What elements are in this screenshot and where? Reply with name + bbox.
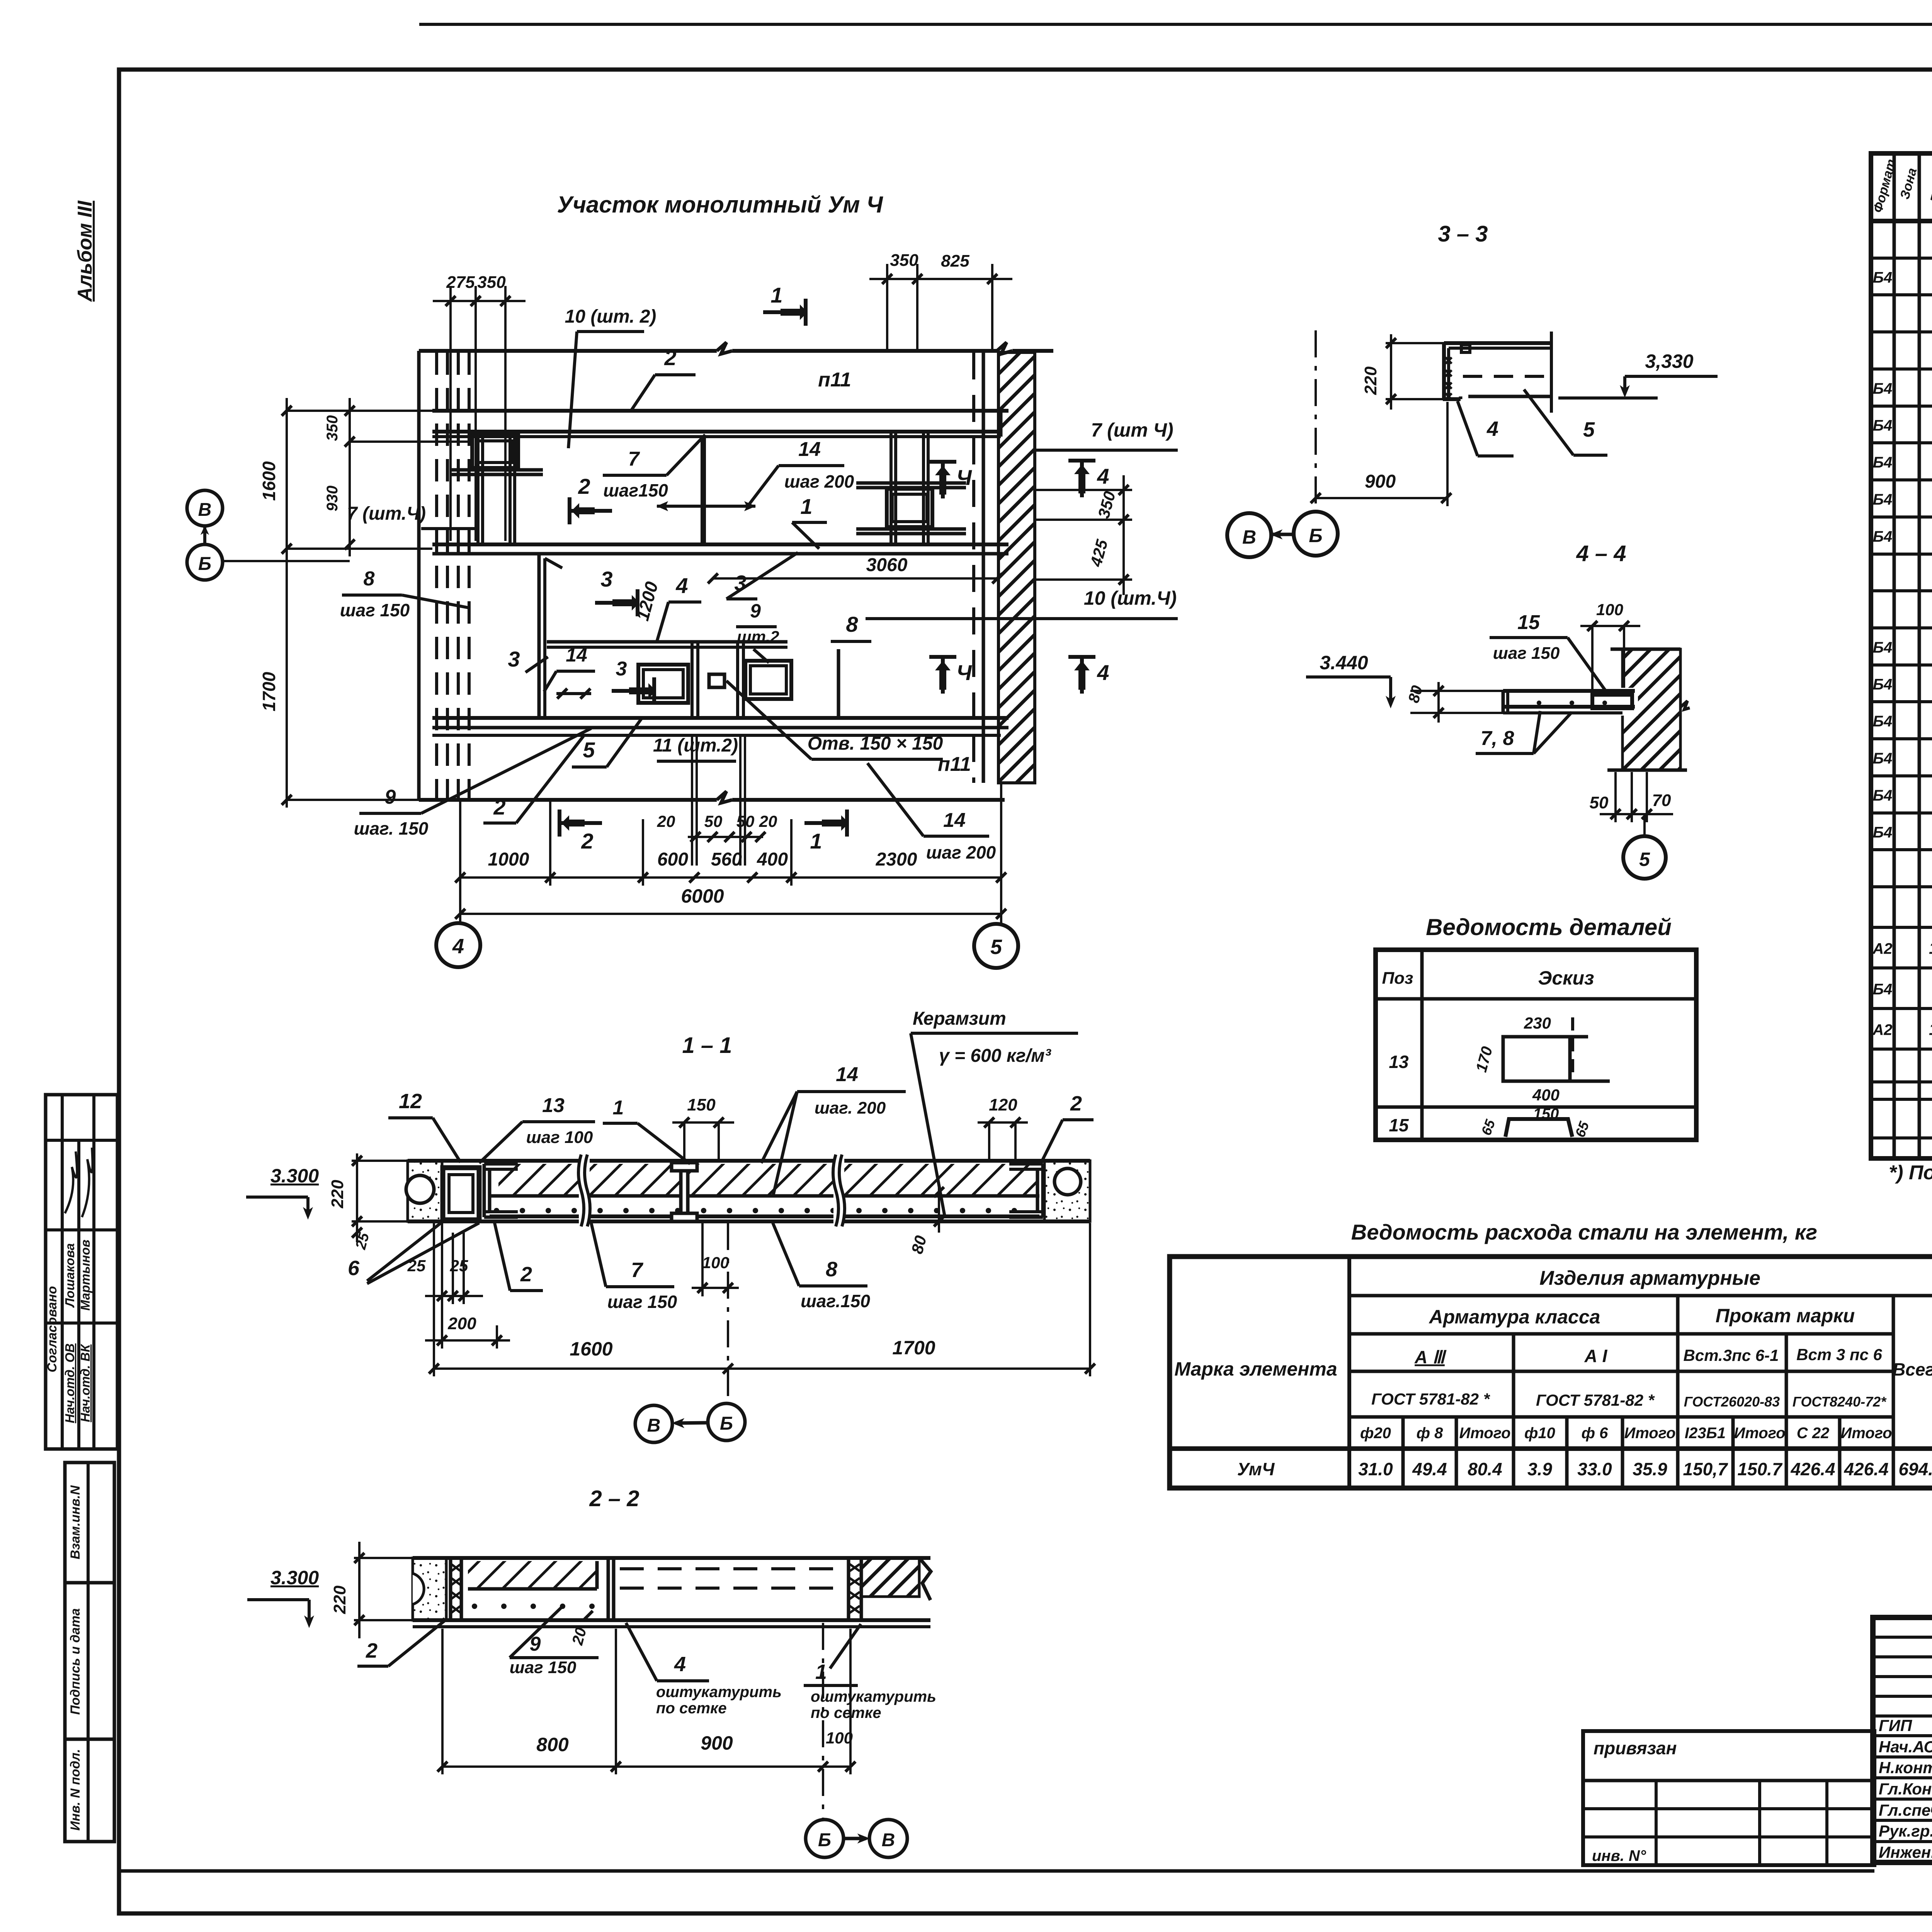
1-1 dim 1600/1700: [434, 1367, 1090, 1370]
svg-text:I23Б1: I23Б1: [1685, 1425, 1726, 1442]
svg-text:В: В: [647, 1415, 661, 1436]
svg-text:15: 15: [1389, 1115, 1409, 1135]
plan: dim 3060: [713, 577, 997, 580]
svg-text:Б4: Б4: [1873, 269, 1893, 286]
svg-text:Всего: Всего: [1893, 1359, 1932, 1379]
spec row line 5: [1871, 405, 1932, 408]
svg-text:УмЧ: УмЧ: [1237, 1459, 1275, 1479]
svg-text:70: 70: [1652, 791, 1671, 810]
svg-text:150,7: 150,7: [1683, 1459, 1728, 1479]
svg-text:ф 8: ф 8: [1417, 1425, 1444, 1442]
svg-text:31.0: 31.0: [1358, 1459, 1393, 1479]
svg-text:11 (шт.2): 11 (шт.2): [653, 735, 738, 756]
svg-text:1: 1: [800, 494, 812, 519]
svg-text:7, 8: 7, 8: [1481, 727, 1514, 750]
svg-text:350: 350: [324, 415, 341, 441]
2-2 channel right: [847, 1558, 850, 1620]
svg-text:шаг.150: шаг.150: [801, 1291, 870, 1311]
svg-text:14: 14: [943, 809, 966, 832]
svg-text:шаг150: шаг150: [603, 480, 668, 500]
2-2 axis circles B-V: [806, 1820, 844, 1857]
svg-text:ГИП: ГИП: [1879, 1716, 1912, 1735]
1-1 channel 2 web left: [483, 1164, 486, 1217]
1-1 I-beam pos1: [672, 1163, 697, 1171]
plan: upper-left embed window: [472, 435, 518, 468]
svg-text:Отв. 150 × 150: Отв. 150 × 150: [808, 733, 943, 754]
svg-text:560: 560: [711, 849, 742, 870]
svg-text:С 22: С 22: [1797, 1425, 1830, 1442]
svg-text:А2: А2: [1872, 1022, 1892, 1039]
svg-text:1700: 1700: [259, 672, 279, 711]
svg-text:оштукатурить: оштукатурить: [656, 1684, 782, 1701]
svg-text:8: 8: [846, 612, 858, 636]
svg-text:ГОСТ8240-72*: ГОСТ8240-72*: [1793, 1394, 1887, 1410]
plan: top edge with break: [419, 349, 717, 353]
svg-text:3: 3: [508, 647, 520, 671]
svg-text:Б4: Б4: [1873, 417, 1893, 434]
svg-text:170: 170: [1473, 1045, 1496, 1074]
svg-text:1: 1: [770, 283, 782, 307]
svg-text:3.440: 3.440: [1320, 652, 1368, 673]
svg-text:А Ⅲ: А Ⅲ: [1414, 1347, 1447, 1367]
spec row line 17: [1871, 848, 1932, 851]
4-4 slab: [1503, 689, 1635, 693]
sketch pos15: bent strip 65-150-65: [1505, 1119, 1572, 1137]
svg-text:шаг 150: шаг 150: [607, 1292, 677, 1312]
2-2 axis dash-dot to circle: [822, 1623, 824, 1818]
signature squiggles: [65, 1151, 77, 1213]
spec row line 14: [1871, 737, 1932, 740]
3-3 right end verticals: [1550, 332, 1553, 413]
svg-text:9: 9: [750, 600, 761, 622]
2-2 right hatched block: [861, 1558, 919, 1597]
svg-text:шаг 150: шаг 150: [510, 1658, 577, 1677]
spec row line 23: [1871, 1080, 1932, 1083]
svg-text:Зона: Зона: [1897, 167, 1920, 201]
spec row line 7: [1871, 478, 1932, 481]
svg-text:7: 7: [631, 1259, 644, 1282]
svg-text:Б: Б: [1309, 525, 1322, 546]
1-1 hatched concrete band: [498, 1164, 1037, 1196]
svg-text:3: 3: [616, 658, 627, 680]
svg-text:65: 65: [1478, 1117, 1498, 1138]
svg-text:8: 8: [364, 568, 375, 590]
svg-text:2 – 2: 2 – 2: [589, 1486, 639, 1511]
svg-text:Изделия арматурные: Изделия арматурные: [1539, 1267, 1760, 1289]
svg-text:Б4: Б4: [1873, 981, 1893, 998]
sheet outer top line: [419, 23, 1932, 26]
steel table grid: [1170, 1257, 1932, 1488]
svg-text:35.9: 35.9: [1633, 1459, 1667, 1479]
spec row line 8: [1871, 515, 1932, 519]
plan: small dim marks left lower: [556, 692, 591, 695]
svg-text:25: 25: [407, 1257, 426, 1275]
spec row line 3: [1871, 330, 1932, 333]
svg-text:Марка элемента: Марка элемента: [1174, 1358, 1337, 1380]
plan: dim 6000: [460, 913, 1001, 915]
plan: upper-right embed window: [887, 489, 932, 527]
svg-text:350: 350: [477, 273, 506, 292]
svg-text:2: 2: [578, 474, 590, 498]
1-1 slab top/bottom lines: [408, 1159, 1090, 1163]
vertical stamp boxes: Vzam.inv.N / Podpis i data / Inv.N podl.: [65, 1463, 114, 1583]
svg-text:1700: 1700: [892, 1337, 935, 1359]
spec row line 6: [1871, 441, 1932, 444]
1-1 channel 12 embed: [443, 1168, 479, 1220]
svg-text:Нач.АСО: Нач.АСО: [1879, 1738, 1932, 1756]
svg-text:3.300: 3.300: [270, 1165, 319, 1187]
svg-text:Итого: Итого: [1734, 1425, 1785, 1442]
svg-text:2: 2: [664, 345, 676, 370]
svg-text:20: 20: [569, 1626, 590, 1647]
svg-text:Б4: Б4: [1873, 454, 1893, 471]
svg-text:Б4: Б4: [1873, 713, 1893, 730]
svg-text:49.4: 49.4: [1412, 1459, 1447, 1479]
svg-text:13: 13: [1389, 1052, 1409, 1072]
svg-text:7 (шт.Ч): 7 (шт.Ч): [347, 503, 426, 524]
4-4 axis circle 5: [1643, 814, 1646, 836]
svg-text:ф20: ф20: [1360, 1425, 1391, 1442]
1-1 break marks: [579, 1155, 590, 1226]
svg-text:14: 14: [566, 644, 587, 666]
svg-text:Вст 3 пс 6: Вст 3 пс 6: [1796, 1345, 1882, 1364]
svg-text:1 – 1: 1 – 1: [682, 1033, 732, 1058]
svg-text:220: 220: [328, 1180, 347, 1209]
svg-text:Участок монолитный Ум Ч: Участок монолитный Ум Ч: [557, 192, 883, 218]
svg-text:Альбом III: Альбом III: [74, 200, 96, 303]
svg-text:200: 200: [447, 1314, 476, 1333]
title block outer box: [1873, 1617, 1932, 1862]
svg-text:10 (шт. 2): 10 (шт. 2): [565, 306, 656, 327]
svg-text:14: 14: [836, 1063, 858, 1086]
plan: lower-right embed window: [745, 661, 791, 699]
svg-text:4 – 4: 4 – 4: [1576, 541, 1626, 566]
svg-text:4: 4: [674, 1653, 686, 1676]
svg-text:3.300: 3.300: [270, 1567, 319, 1588]
spec row line 11: [1871, 626, 1932, 629]
specification table grid: [1871, 153, 1932, 1158]
svg-text:В: В: [882, 1830, 895, 1850]
svg-text:80: 80: [908, 1234, 930, 1256]
svg-text:1000: 1000: [488, 849, 529, 870]
1-1 rebar dots: [494, 1208, 499, 1213]
svg-text:100: 100: [1596, 600, 1623, 619]
svg-text:900: 900: [1365, 471, 1396, 492]
plan: band 2: [432, 543, 1009, 546]
svg-text:7 (шт Ч): 7 (шт Ч): [1091, 419, 1173, 441]
svg-text:2: 2: [493, 795, 505, 819]
3-3 channel profile: [1444, 341, 1551, 345]
svg-text:4: 4: [452, 935, 464, 958]
svg-text:Итого: Итого: [1624, 1425, 1675, 1442]
svg-text:ф10: ф10: [1524, 1425, 1555, 1442]
svg-text:12: 12: [399, 1090, 422, 1113]
svg-text:1200: 1200: [632, 579, 662, 623]
svg-text:350: 350: [1094, 489, 1119, 520]
svg-text:20: 20: [657, 812, 675, 830]
svg-text:5: 5: [1639, 849, 1650, 870]
svg-text:400: 400: [1532, 1086, 1560, 1104]
svg-text:80.4: 80.4: [1468, 1459, 1502, 1479]
spec row line 13: [1871, 700, 1932, 703]
svg-text:Б: Б: [720, 1413, 733, 1434]
privyazan block left of title block: [1583, 1731, 1874, 1865]
1-1 axis circles V-B: [635, 1405, 672, 1442]
svg-text:Инв. N подл.: Инв. N подл.: [68, 1749, 83, 1831]
svg-text:220: 220: [1361, 366, 1380, 395]
svg-text:4: 4: [675, 573, 688, 598]
1-1 axis dash-dot: [727, 1223, 729, 1403]
svg-text:15: 15: [1517, 611, 1540, 634]
svg-text:Вст.3пс 6-1: Вст.3пс 6-1: [1684, 1346, 1779, 1364]
svg-text:Гл.спеч.: Гл.спеч.: [1879, 1801, 1932, 1819]
spec row line 2: [1871, 293, 1932, 296]
svg-text:3060: 3060: [866, 555, 908, 575]
4-4 channel at slab end: [1592, 695, 1632, 708]
svg-text:230: 230: [1524, 1014, 1551, 1032]
svg-text:Мартынов: Мартынов: [78, 1240, 92, 1311]
svg-text:150: 150: [1533, 1105, 1559, 1122]
plan: small opening 150x150: [709, 674, 724, 687]
plan: axis circles V/B left: [187, 490, 223, 526]
4-4 wall bottom edge: [1607, 769, 1687, 772]
svg-text:2: 2: [581, 829, 593, 853]
1-1 right wall block: [1044, 1161, 1090, 1221]
svg-text:Поз.: Поз.: [1927, 171, 1932, 206]
svg-text:80: 80: [1405, 684, 1426, 704]
spec row line 19: [1871, 926, 1932, 929]
svg-text:Б4: Б4: [1873, 824, 1893, 841]
plan: right rotated dims 350/425: [1035, 489, 1132, 491]
svg-text:Взам.инв.N: Взам.инв.N: [68, 1485, 83, 1560]
svg-text:шаг 150: шаг 150: [1493, 644, 1560, 663]
svg-text:Согласовано: Согласовано: [45, 1286, 60, 1372]
svg-text:4: 4: [1097, 660, 1109, 685]
svg-text:9: 9: [385, 786, 396, 808]
svg-text:1: 1: [815, 1660, 827, 1684]
svg-text:20: 20: [759, 812, 777, 830]
4-4 wall top extension: [1611, 648, 1680, 651]
plan: band 3: [432, 716, 1009, 720]
svg-text:Прокат марки: Прокат марки: [1716, 1305, 1855, 1327]
svg-text:13*: 13*: [1929, 939, 1932, 958]
svg-text:10 (шт.Ч): 10 (шт.Ч): [1084, 587, 1177, 609]
plan: dim chain 1000/600/560/400/2300: [460, 876, 1001, 879]
svg-text:Б4: Б4: [1873, 676, 1893, 693]
svg-text:50: 50: [1590, 793, 1609, 812]
plan: vertical section flags 4 lower: [929, 655, 956, 659]
svg-text:ф 6: ф 6: [1582, 1425, 1609, 1442]
svg-text:6000: 6000: [681, 885, 724, 907]
svg-text:п11: п11: [938, 753, 971, 776]
plan: vertical section flags 4 upper: [929, 460, 956, 464]
svg-text:Итого: Итого: [1459, 1425, 1510, 1442]
svg-text:600: 600: [657, 849, 688, 870]
svg-text:4: 4: [1097, 464, 1109, 488]
svg-text:Лошакова: Лошакова: [63, 1243, 77, 1308]
plan: section flag 2 bottom: [560, 821, 602, 825]
plan: axis B reference line: [223, 560, 350, 562]
svg-text:120: 120: [989, 1095, 1017, 1114]
plan: lower room left wall edge: [537, 554, 541, 718]
svg-text:6: 6: [348, 1257, 360, 1280]
svg-text:425: 425: [1087, 537, 1111, 569]
svg-text:Керамзит: Керамзит: [913, 1009, 1006, 1029]
svg-text:14: 14: [798, 438, 821, 461]
svg-text:5: 5: [583, 738, 595, 762]
svg-text:Ведомость расхода стали на: Ведомость расхода стали на элемент, кг: [1351, 1220, 1817, 1244]
sketch pos13: plate 230x170x400: [1503, 1037, 1570, 1081]
svg-text:ГОСТ 5781-82 *: ГОСТ 5781-82 *: [1371, 1390, 1490, 1408]
plan: axis circle 4: [436, 923, 480, 967]
svg-text:Б4: Б4: [1873, 528, 1893, 545]
svg-text:*) Поз. 13.15 – см. ведомост: *) Поз. 13.15 – см. ведомость деталей: [1889, 1162, 1932, 1184]
svg-text:426.4: 426.4: [1790, 1459, 1835, 1479]
svg-text:100: 100: [826, 1729, 853, 1747]
svg-text:15*: 15*: [1929, 1020, 1932, 1039]
svg-text:Инжен.: Инжен.: [1879, 1843, 1932, 1861]
svg-text:В: В: [198, 500, 212, 520]
svg-text:100: 100: [702, 1253, 729, 1272]
svg-text:Поз: Поз: [1382, 969, 1413, 988]
plan: section flag 1 bottom: [804, 821, 847, 825]
svg-text:шаг 100: шаг 100: [526, 1128, 593, 1147]
spec row line 24: [1871, 1098, 1932, 1101]
svg-text:шаг. 150: шаг. 150: [354, 818, 429, 838]
svg-text:Б: Б: [818, 1830, 831, 1850]
svg-text:инв. N°: инв. N°: [1592, 1847, 1646, 1864]
plan: bars through upper-right window: [856, 481, 966, 485]
spec row line 4: [1871, 367, 1932, 371]
2-2 channel left: [449, 1558, 452, 1620]
plan: lower slab inner edge: [547, 640, 787, 644]
svg-text:50: 50: [704, 812, 723, 830]
plan: shag arrows line: [657, 505, 755, 508]
2-2 dims 800/900/100: [442, 1765, 850, 1768]
svg-text:Нач.отд. ОВ: Нач.отд. ОВ: [63, 1344, 77, 1423]
svg-text:ГОСТ 5781-82 *: ГОСТ 5781-82 *: [1536, 1391, 1655, 1409]
svg-text:1600: 1600: [259, 461, 279, 501]
svg-text:426.4: 426.4: [1844, 1459, 1888, 1479]
2-2 dashed middle zone: [620, 1567, 846, 1570]
svg-text:оштукатурить: оштукатурить: [811, 1688, 936, 1705]
spec row line 18: [1871, 885, 1932, 888]
svg-text:Б4: Б4: [1873, 491, 1893, 508]
svg-text:13: 13: [542, 1094, 565, 1117]
svg-text:Ведомость деталей: Ведомость деталей: [1426, 914, 1672, 940]
svg-text:1: 1: [613, 1097, 624, 1119]
svg-text:400: 400: [757, 849, 788, 870]
plan: bar pairs around opening: [690, 642, 694, 718]
svg-text:8: 8: [826, 1258, 837, 1281]
svg-text:65: 65: [1572, 1119, 1592, 1139]
svg-text:930: 930: [324, 486, 341, 512]
plan: lower-left embed window: [638, 665, 688, 703]
svg-text:3 – 3: 3 – 3: [1438, 221, 1488, 247]
spec row line 21: [1871, 1007, 1932, 1010]
svg-text:Нач.отд. ВК: Нач.отд. ВК: [78, 1344, 92, 1422]
svg-text:Б4: Б4: [1873, 639, 1893, 656]
4-4 rebar dots: [1537, 701, 1541, 705]
spec row line 9: [1871, 553, 1932, 556]
spec row line 22: [1871, 1048, 1932, 1051]
2-2 top and bottom edges: [413, 1556, 930, 1560]
svg-text:А I: А I: [1584, 1346, 1608, 1366]
plan: axis lines down to circles: [459, 800, 461, 923]
svg-text:7: 7: [628, 448, 640, 470]
svg-text:350: 350: [890, 251, 918, 270]
svg-text:Итого: Итого: [1840, 1425, 1892, 1442]
spec row line 12: [1871, 663, 1932, 667]
svg-text:по сетке: по сетке: [656, 1700, 727, 1717]
plan: axis circle 5: [974, 924, 1018, 968]
svg-text:Подпись и дата: Подпись и дата: [68, 1608, 83, 1715]
svg-text:по сетке: по сетке: [811, 1704, 881, 1721]
2-2 left wall block: [413, 1558, 446, 1620]
svg-text:ГОСТ26020-83: ГОСТ26020-83: [1684, 1394, 1780, 1410]
svg-text:3.9: 3.9: [1527, 1459, 1552, 1479]
svg-text:Ч: Ч: [956, 660, 972, 685]
svg-text:694.1: 694.1: [1898, 1459, 1932, 1479]
2-2 rebar dots left part: [472, 1604, 477, 1609]
svg-text:900: 900: [701, 1732, 733, 1754]
svg-text:5: 5: [1583, 418, 1595, 441]
svg-text:Гл.Конст: Гл.Конст: [1879, 1780, 1932, 1798]
plan: left wall (dashed band): [417, 351, 421, 800]
svg-text:γ = 600 кг/м³: γ = 600 кг/м³: [939, 1046, 1052, 1066]
svg-text:800: 800: [536, 1734, 569, 1755]
spec row line 25: [1871, 1136, 1932, 1139]
svg-text:3,330: 3,330: [1645, 350, 1693, 372]
plan: inner wall line right: [972, 352, 975, 783]
plan: right wall hatched: [998, 352, 1035, 783]
plan: beam band 1 (P11 edge): [432, 409, 1009, 413]
svg-text:шаг 200: шаг 200: [784, 471, 854, 492]
svg-text:привязан: привязан: [1594, 1738, 1677, 1758]
plan: top-right dim chain 350/825: [869, 278, 1012, 280]
2-2 dim 220: [358, 1542, 361, 1638]
spec row line 10: [1871, 589, 1932, 592]
svg-text:шаг 150: шаг 150: [340, 600, 410, 620]
3-3 dim 220: [1390, 334, 1392, 410]
svg-text:275: 275: [446, 273, 475, 292]
svg-text:825: 825: [941, 252, 969, 270]
svg-text:Б4: Б4: [1873, 787, 1893, 804]
svg-text:п11: п11: [818, 369, 851, 391]
1-1 dim 220: [356, 1153, 358, 1242]
svg-text:Б: Б: [198, 554, 211, 574]
plan: bottom edge with break: [419, 798, 717, 802]
svg-text:Рук.гр.: Рук.гр.: [1879, 1822, 1932, 1840]
3-3 axis circles V-B: [1227, 513, 1271, 557]
1-1 left wall block with keramzit circle: [408, 1161, 442, 1221]
spec row line 15: [1871, 774, 1932, 777]
svg-text:4: 4: [1486, 417, 1498, 440]
spec row line 20: [1871, 966, 1932, 969]
plan: left dim chain 350/930: [349, 398, 351, 556]
svg-text:Эскиз: Эскиз: [1538, 967, 1594, 989]
3-3 weld x-marks: [1446, 357, 1452, 364]
svg-text:2: 2: [520, 1263, 532, 1286]
svg-text:Б4: Б4: [1873, 750, 1893, 767]
svg-text:Арматура класса: Арматура класса: [1429, 1306, 1600, 1328]
svg-text:шт.2: шт.2: [737, 628, 779, 646]
plan: section flag 1 top: [763, 310, 806, 314]
svg-text:шаг 200: шаг 200: [926, 842, 996, 862]
svg-text:А2: А2: [1872, 940, 1892, 957]
svg-text:шаг. 200: шаг. 200: [815, 1099, 886, 1117]
spec row line 1: [1871, 257, 1932, 260]
